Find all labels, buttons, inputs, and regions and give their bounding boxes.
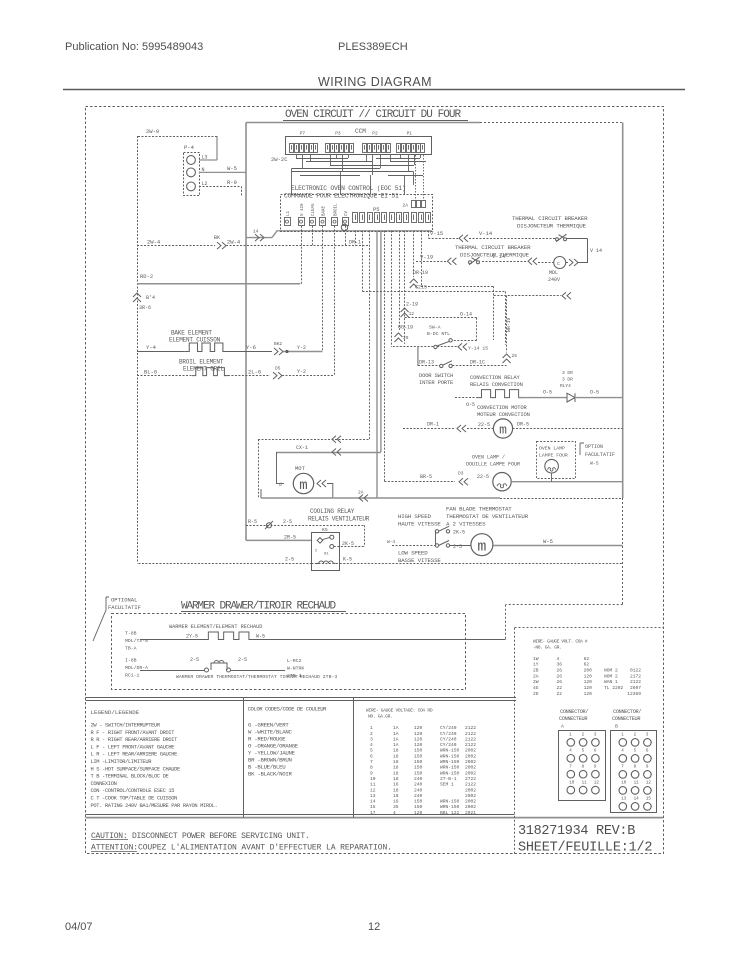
svg-text:A 2 VITESSES: A 2 VITESSES [446,521,486,528]
thermostat switch high [435,530,438,533]
svg-text:WAN 1: WAN 1 [604,679,618,685]
svg-text:L-RC2: L-RC2 [287,658,302,664]
svg-text:36: 36 [557,662,563,668]
svg-text:7: 7 [370,759,373,765]
svg-text:FACULTATIF: FACULTATIF [108,604,141,611]
svg-text:T B -TERMINAL BLOCK/BLOC DE: T B -TERMINAL BLOCK/BLOC DE [91,774,169,780]
svg-text:OVEN LAMP /: OVEN LAMP / [472,455,505,461]
svg-text:B-DC NTL: B-DC NTL [427,331,450,337]
wire top run to right bus [246,122,480,124]
svg-text:2A: 2A [403,203,409,209]
svg-text:G -GREEN/VERT: G -GREEN/VERT [248,722,289,729]
svg-text:1A: 1A [393,736,399,742]
svg-text:11: 11 [370,782,376,788]
wire row 296 to splice [494,295,561,297]
connector CCM outline [286,137,432,155]
svg-text:22-5: 22-5 [478,422,490,428]
svg-text:DR-19: DR-19 [413,270,428,276]
svg-text:120: 120 [584,679,593,685]
svg-text:R R - RIGHT REAR/ARRIERE DROIT: R R - RIGHT REAR/ARRIERE DROIT [91,737,179,743]
svg-text:18: 18 [393,776,399,782]
svg-text:2-5: 2-5 [283,519,292,525]
svg-text:62: 62 [584,656,590,662]
svg-text:L F - LEFT FRONT/AVANT GAUCHE: L F - LEFT FRONT/AVANT GAUCHE [91,744,175,750]
svg-text:P2: P2 [372,131,378,137]
svg-text:m: m [299,478,307,494]
svg-text:DR-5: DR-5 [517,422,529,428]
svg-text:R -RED/ROUGE: R -RED/ROUGE [248,736,286,743]
svg-text:NOM 2: NOM 2 [604,673,618,679]
svg-text:12: 12 [409,311,415,317]
svg-text:BASSE VITESSE: BASSE VITESSE [398,557,441,564]
svg-text:R F - RIGHT FRONT/AVANT DROIT: R F - RIGHT FRONT/AVANT DROIT [91,730,176,736]
svg-text:THERMAL CIRCUIT BREAKER: THERMAL CIRCUIT BREAKER [512,215,588,222]
svg-text:2122: 2122 [465,736,476,742]
svg-text:22: 22 [557,691,563,697]
svg-text:TB-A: TB-A [125,646,137,652]
svg-text:2122: 2122 [465,731,476,737]
wire row 291 [362,291,505,293]
cooling motor dashed enclosure [258,439,370,441]
svg-text:WRN-150: WRN-150 [440,759,460,765]
svg-text:BK -BLACK/NOIR: BK -BLACK/NOIR [248,771,292,778]
chevron B-4 3R-6 [133,293,141,297]
svg-text:16: 16 [393,782,399,788]
convection relay heater element [455,397,477,399]
svg-text:CV: CV [345,210,349,216]
wire drops from EOC lower-left pins [301,226,303,284]
lamp oven option [545,459,559,473]
lamp oven 1 [493,473,511,491]
svg-text:RELAIS VENTILATEUR: RELAIS VENTILATEUR [308,516,370,523]
svg-text:W-5: W-5 [543,538,553,545]
svg-text:CONNECTEUR: CONNECTEUR [559,716,587,722]
svg-text:240V: 240V [548,277,560,283]
svg-text:MOT: MOT [295,465,306,472]
svg-text:150: 150 [414,799,423,805]
svg-text:POT. RATING 240V BA1/MESURE PA: POT. RATING 240V BA1/MESURE PAR RAYON MI… [91,803,218,809]
svg-text:4: 4 [370,742,373,748]
svg-text:LEGEND/LEGENDE: LEGEND/LEGENDE [91,709,140,716]
svg-text:Y -YELLOW/JAUNE: Y -YELLOW/JAUNE [248,750,296,757]
svg-text:FAN BLADE THERMOSTAT: FAN BLADE THERMOSTAT [446,506,512,513]
svg-text:2722: 2722 [465,776,476,782]
svg-text:L1: L1 [287,210,291,216]
connector EOC P5 pin row [353,213,358,223]
legend divider dashed right [514,628,516,854]
svg-text:N 420: N 420 [301,203,305,216]
svg-text:LAMPE FOUR: LAMPE FOUR [539,453,568,459]
svg-text:120: 120 [584,685,593,691]
svg-text:DISJONCTEUR THERMIQUE: DISJONCTEUR THERMIQUE [517,223,587,230]
legend band top rule [86,697,517,699]
svg-text:14: 14 [370,799,376,805]
wire lamp to bus [511,481,623,483]
svg-text:2002: 2002 [465,793,476,799]
svg-text:m: m [477,539,486,556]
svg-text:2-5: 2-5 [285,557,294,563]
svg-text:WRN-150: WRN-150 [440,770,460,776]
wire motor to bus [513,428,623,430]
svg-text:OVEN CIRCUIT // CIRCUIT DU FOU: OVEN CIRCUIT // CIRCUIT DU FOUR [285,109,462,121]
svg-text:DR-1: DR-1 [427,422,439,428]
svg-text:GG-19: GG-19 [398,325,413,331]
svg-text:18: 18 [393,748,399,754]
wire left riser [137,136,139,563]
svg-text:W -WHITE/BLANC: W -WHITE/BLANC [248,729,292,736]
svg-text:d: d [279,482,282,488]
svg-text:18: 18 [393,765,399,771]
svg-text:BAKE ELEMENT: BAKE ELEMENT [171,330,212,337]
svg-text:Y-2: Y-2 [297,369,306,375]
svg-text:3 DR: 3 DR [562,370,573,376]
svg-text:WIRING DIAGRAM: WIRING DIAGRAM [318,75,432,89]
svg-text:12: 12 [594,781,600,785]
svg-text:CY/240: CY/240 [440,725,457,731]
svg-text:W-5: W-5 [590,461,599,467]
svg-text:WARMER DRAWER THERMOSTAT/THERM: WARMER DRAWER THERMOSTAT/THERMOSTAT TIRO… [176,674,337,680]
svg-text:WARMER DRAWER/TIROIR RECHAUD: WARMER DRAWER/TIROIR RECHAUD [181,601,337,613]
svg-text:240: 240 [414,782,423,788]
svg-text:c: c [557,261,560,267]
svg-text:Publication No: 5995489043: Publication No: 5995489043 [65,41,203,53]
svg-text:-NO. GA. GR.: -NO. GA. GR. [533,645,561,651]
svg-text:CONNECTOR/: CONNECTOR/ [613,709,641,715]
svg-text:MDL: MDL [549,270,558,276]
header underline rule [63,89,685,91]
option lamp dashed box [537,442,576,479]
svg-text:DR-1: DR-1 [349,240,361,246]
svg-text:DOOR SWITCH: DOOR SWITCH [419,372,453,379]
svg-text:2Y-5: 2Y-5 [186,634,198,640]
svg-text:O-5: O-5 [543,390,552,396]
svg-text:WIRE- GAUGE VOLTAGE: COA: WIRE- GAUGE VOLTAGE: COA RD [366,708,433,714]
svg-text:11: 11 [634,782,640,786]
module EOC outline [281,195,433,232]
svg-text:HIGH SPEED: HIGH SPEED [398,513,432,520]
legend divider 1 [243,697,245,817]
warmer drawer dashed box [112,614,466,690]
svg-text:BR-5: BR-5 [420,474,432,480]
svg-text:13: 13 [370,793,376,799]
svg-text:K5: K5 [322,527,328,533]
svg-text:FACULTATIF: FACULTATIF [585,452,615,458]
svg-text:240: 240 [414,787,423,793]
svg-text:150: 150 [414,804,423,810]
svg-text:THERMOSTAT DE VENTILATEUR: THERMOSTAT DE VENTILATEUR [446,513,529,520]
svg-text:B'4: B'4 [146,295,155,301]
terminal N [187,168,196,177]
svg-text:K-5: K-5 [343,557,352,563]
svg-text:04/07: 04/07 [65,921,93,933]
svg-text:2-5: 2-5 [190,657,199,663]
svg-text:V 14: V 14 [590,248,602,254]
wire harness nest between CCM and EOC [296,158,348,160]
svg-text:INTER PORTE: INTER PORTE [419,379,454,386]
svg-text:H S -HOT SURFACE/SURFACE CHAUD: H S -HOT SURFACE/SURFACE CHAUDE [91,766,181,772]
svg-text:WRN-150: WRN-150 [440,765,460,771]
thermostat switch low [435,544,438,547]
relay K5 box [312,533,340,571]
svg-text:THERMAL CIRCUIT BREAKER: THERMAL CIRCUIT BREAKER [455,244,531,251]
junction connector symbol on L1 feed [341,224,347,230]
svg-text:2172: 2172 [630,673,641,679]
svg-text:10: 10 [569,781,575,785]
svg-text:WRN-150: WRN-150 [440,799,460,805]
svg-text:12: 12 [368,921,380,933]
svg-text:OVEN LAMP: OVEN LAMP [539,446,565,452]
svg-text:2122: 2122 [465,742,476,748]
svg-text:SHEET/FEUILLE:1/2: SHEET/FEUILLE:1/2 [518,841,652,856]
svg-text:2002: 2002 [465,765,476,771]
svg-text:120: 120 [414,810,423,816]
svg-text:CONNEXION: CONNEXION [91,781,117,787]
svg-text:HAUTE VITESSE: HAUTE VITESSE [398,521,441,528]
svg-text:240: 240 [414,793,423,799]
svg-text:2W-2C: 2W-2C [271,156,288,163]
svg-text:6: 6 [370,753,373,759]
svg-text:CCM: CCM [355,128,366,135]
svg-text:C215: C215 [415,285,427,291]
svg-text:W-5: W-5 [256,634,265,640]
svg-text:12369: 12369 [627,691,641,697]
svg-text:RELAIS CONVECTION: RELAIS CONVECTION [470,381,523,388]
svg-text:14: 14 [253,229,259,235]
svg-text:2W-9: 2W-9 [146,128,159,135]
svg-text:120: 120 [414,731,423,737]
svg-text:1A: 1A [393,731,399,737]
wire gray jog to door row [417,347,419,366]
svg-text:D5: D5 [275,366,281,372]
svg-text:LOW SPEED: LOW SPEED [398,550,428,557]
svg-text:3 DR: 3 DR [562,377,573,383]
svg-text:150: 150 [414,748,423,754]
svg-text:2T-B-1: 2T-B-1 [440,776,457,782]
svg-text:120: 120 [414,725,423,731]
svg-text:B -BLUE/BLEU: B -BLUE/BLEU [248,764,286,771]
component MDL motor-delay circle [554,257,566,269]
svg-text:2: 2 [370,731,373,737]
svg-text:150: 150 [414,759,423,765]
svg-text:RD-2: RD-2 [140,273,153,280]
svg-text:L R - LEFT REAR/ARRIERE GAUCHE: L R - LEFT REAR/ARRIERE GAUCHE [91,752,178,758]
connector EOC lower-left pins [285,218,291,226]
svg-text:CLEAN: CLEAN [312,203,316,216]
svg-text:CONNECTOR/: CONNECTOR/ [560,709,588,715]
svg-text:V-19: V-19 [420,254,433,261]
svg-text:26: 26 [557,679,563,685]
svg-text:BK2: BK2 [274,341,282,347]
svg-text:CONNECTEUR: CONNECTEUR [612,716,640,722]
svg-text:BAKE: BAKE [323,205,327,216]
svg-text:MDL/TX-8: MDL/TX-8 [125,638,148,644]
svg-text:NOM 2: NOM 2 [604,668,618,674]
svg-text:1W: 1W [533,656,539,662]
svg-text:120: 120 [414,736,423,742]
svg-text:W-NTRK: W-NTRK [287,666,304,672]
svg-text:CONVECTION MOTOR: CONVECTION MOTOR [477,404,528,411]
breaker contact 2 [469,261,472,264]
svg-text:4: 4 [393,810,396,816]
svg-text:22: 22 [557,685,563,691]
svg-text:T-8B: T-8B [125,631,137,637]
svg-text:COOLING RELAY: COOLING RELAY [310,508,355,515]
svg-text:2122: 2122 [630,679,641,685]
svg-text:P3: P3 [335,131,341,137]
svg-text:Y-14 15: Y-14 15 [468,346,488,352]
svg-text:62: 62 [584,662,590,668]
svg-text:2002: 2002 [465,748,476,754]
motor fan two-speed [471,534,493,556]
wire bundle below EOC [355,231,357,246]
svg-text:18: 18 [393,759,399,765]
svg-text:O-14: O-14 [460,312,472,318]
wire bus A vertical [245,123,247,541]
svg-text:2021: 2021 [465,810,476,816]
svg-text:318271934 REV:B: 318271934 REV:B [518,824,635,839]
svg-text:COMMANDE FOUR ELECTRONIQUE EI: COMMANDE FOUR ELECTRONIQUE EI 51 [284,193,399,200]
svg-text:P-4: P-4 [184,144,195,151]
svg-text:Y-4: Y-4 [146,344,157,351]
svg-text:m: m [499,423,507,438]
svg-text:2122: 2122 [465,725,476,731]
switch SW-A door jamb [393,346,434,348]
svg-text:2K-5: 2K-5 [453,530,465,536]
svg-text:18: 18 [393,787,399,793]
svg-text:8: 8 [370,765,373,771]
svg-text:2-5: 2-5 [238,657,247,663]
svg-text:DR-1C: DR-1C [470,360,485,366]
right box top rule [515,627,664,629]
svg-text:2A: 2A [533,673,539,679]
svg-text:SW-A: SW-A [429,325,441,331]
svg-text:B: B [615,724,618,730]
svg-text:120: 120 [414,742,423,748]
svg-text:P7: P7 [300,131,306,137]
svg-text:2B: 2B [533,668,539,674]
svg-text:5: 5 [370,748,373,754]
svg-text:R-9: R-9 [227,179,237,186]
svg-text:91: 91 [324,553,329,557]
svg-text:O-5: O-5 [466,402,475,408]
svg-text:Y-2: Y-2 [297,345,306,351]
svg-text:9: 9 [370,770,373,776]
svg-text:2002: 2002 [465,787,476,793]
svg-text:DOUILLE LAMPE FOUR: DOUILLE LAMPE FOUR [466,462,520,468]
svg-text:BROIL: BROIL [335,203,339,216]
svg-text:RC1-1: RC1-1 [125,673,140,679]
svg-text:2002: 2002 [465,770,476,776]
wire row to splice 286 [421,286,494,288]
wire V-14 corner [587,238,589,263]
svg-text:11: 11 [582,781,588,785]
svg-text:W-5: W-5 [227,165,237,172]
svg-text:PLES389ECH: PLES389ECH [338,41,408,53]
svg-text:COLOR CODES/CODE DE COULEUR: COLOR CODES/CODE DE COULEUR [248,706,328,713]
svg-text:LIM -LIMITOR/LIMITEUR: LIM -LIMITOR/LIMITEUR [91,759,153,765]
svg-text:R-5: R-5 [248,519,257,525]
svg-text:CX-1: CX-1 [296,445,308,451]
svg-text:18: 18 [393,770,399,776]
svg-text:Y-6: Y-6 [246,344,256,351]
wire L1 feed to EOC with splices [246,237,272,239]
svg-text:BROIL ELEMENT: BROIL ELEMENT [179,359,224,366]
svg-text:15: 15 [646,798,652,802]
svg-text:10: 10 [621,782,627,786]
connector A pin grid [559,731,606,801]
wire vertical 506 with chevron 25 [506,296,508,353]
svg-text:OPTION: OPTION [585,444,603,450]
svg-text:2-19: 2-19 [406,302,418,308]
svg-text:150: 150 [414,765,423,771]
svg-text:26: 26 [557,668,563,674]
svg-text:P1: P1 [407,131,413,137]
svg-text:NO. GA.GR.: NO. GA.GR. [368,714,393,720]
terminal L2 [187,182,196,191]
svg-text:W-4: W-4 [387,539,395,545]
svg-text:150: 150 [414,753,423,759]
svg-text:WRN-150: WRN-150 [440,748,460,754]
connector B pin grid [611,731,657,813]
svg-text:V-15: V-15 [430,230,443,237]
svg-text:WARMER ELEMENT/ELEMENT RECHAUD: WARMER ELEMENT/ELEMENT RECHAUD [169,624,262,630]
svg-text:120: 120 [584,673,593,679]
svg-text:ELEMENT CUISSON: ELEMENT CUISSON [169,337,221,344]
svg-text:BK: BK [214,235,220,241]
svg-text:2002: 2002 [465,799,476,805]
svg-text:2607: 2607 [630,685,641,691]
svg-text:2W - SWITCH/INTERRUPTEUR: 2W - SWITCH/INTERRUPTEUR [91,723,161,729]
svg-text:2L-6: 2L-6 [248,369,261,376]
svg-text:2W: 2W [533,679,539,685]
wire step to warmer drawer [506,604,623,606]
motor convection M1 [493,419,512,438]
svg-text:35: 35 [393,804,399,810]
svg-text:10: 10 [370,776,376,782]
svg-text:V-14: V-14 [492,253,506,260]
relay coil [317,561,336,563]
svg-text:ELEMENT GRIL: ELEMENT GRIL [183,366,224,373]
svg-text:1: 1 [370,725,373,731]
svg-text:200: 200 [584,668,593,674]
svg-text:150: 150 [414,770,423,776]
svg-text:26: 26 [557,673,563,679]
main diagram dashed border frame [86,107,664,854]
svg-text:I-8B: I-8B [125,658,137,664]
svg-text:240: 240 [414,776,423,782]
svg-text:C T -COOK TOP/TABLE DE CUISSON: C T -COOK TOP/TABLE DE CUISSON [91,796,178,802]
svg-text:22-5: 22-5 [477,474,489,480]
svg-text:14: 14 [634,798,640,802]
svg-text:1A: 1A [393,742,399,748]
svg-text:0122: 0122 [630,668,641,674]
svg-text:P5: P5 [373,206,380,213]
svg-text:17: 17 [370,810,376,816]
svg-text:12: 12 [370,787,376,793]
label option facultatif [580,443,584,455]
svg-text:BBL 122: BBL 122 [440,810,460,816]
svg-text:RLY4: RLY4 [560,383,571,389]
svg-text:WRN-150: WRN-150 [440,753,460,759]
svg-text:18: 18 [393,793,399,799]
svg-text:4: 4 [557,656,560,662]
svg-text:2R-5: 2R-5 [284,535,296,541]
svg-text:12: 12 [646,782,652,786]
svg-text:15: 15 [370,804,376,810]
svg-text:2122: 2122 [465,782,476,788]
svg-text:2K-5: 2K-5 [342,541,354,547]
wire risers to EOC P1 [415,155,417,201]
